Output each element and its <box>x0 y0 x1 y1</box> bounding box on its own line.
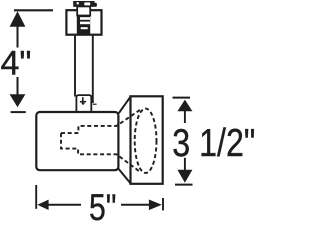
screw thread bar 1 <box>80 17 90 20</box>
3.5in dimension up arrow <box>177 100 192 112</box>
svg-text:5": 5" <box>89 187 117 224</box>
stem side tick <box>93 103 97 105</box>
5in dimension line right segment <box>121 204 150 206</box>
4in dimension down arrow <box>10 94 26 107</box>
lamp face dashed ellipse <box>135 109 157 173</box>
contact bar white dot <box>76 2 79 5</box>
track contact bar right lug <box>94 3 97 7</box>
contact bar white window <box>84 2 90 5</box>
screw thread bar 3 <box>81 27 88 29</box>
dimension extension line top (track level) <box>14 9 53 11</box>
front rim <box>131 96 163 184</box>
swivel knob <box>76 95 91 111</box>
flare cone top edge <box>119 96 131 113</box>
stem right line <box>92 35 94 103</box>
4in dimension line lower segment <box>17 77 19 96</box>
adapter neck <box>77 6 90 15</box>
3.5in dimension line upper segment <box>184 110 186 123</box>
3.5in dimension line lower segment <box>184 158 186 171</box>
svg-text:4": 4" <box>1 44 32 82</box>
dimension extension tick bottom of 4in <box>11 111 26 113</box>
5in left extension tick <box>35 185 37 209</box>
screw thread bar 2 <box>80 22 90 25</box>
5in dimension line left segment <box>48 204 81 206</box>
phillips screw tip <box>81 103 85 105</box>
3.5in top extension tick <box>173 97 191 99</box>
adapter screw column <box>77 15 90 35</box>
5in dimension left arrow <box>37 200 48 210</box>
5in right extension tick <box>162 198 164 210</box>
track contact bar top <box>73 1 94 7</box>
flare cone bottom edge <box>119 169 131 184</box>
5in dimension right arrow <box>149 200 162 211</box>
4in dimension up arrow <box>10 11 26 26</box>
3.5in bottom extension tick <box>175 184 193 186</box>
stem left line <box>74 35 76 97</box>
phillips screw horizontal bar <box>80 101 86 103</box>
lamp head body <box>36 112 118 170</box>
3.5in dimension down arrow <box>177 170 192 183</box>
phillips screw vertical bar <box>82 97 84 104</box>
4in dimension line upper segment <box>17 26 19 48</box>
hidden lamp dashed outline <box>61 109 141 172</box>
track adapter body <box>66 10 101 35</box>
